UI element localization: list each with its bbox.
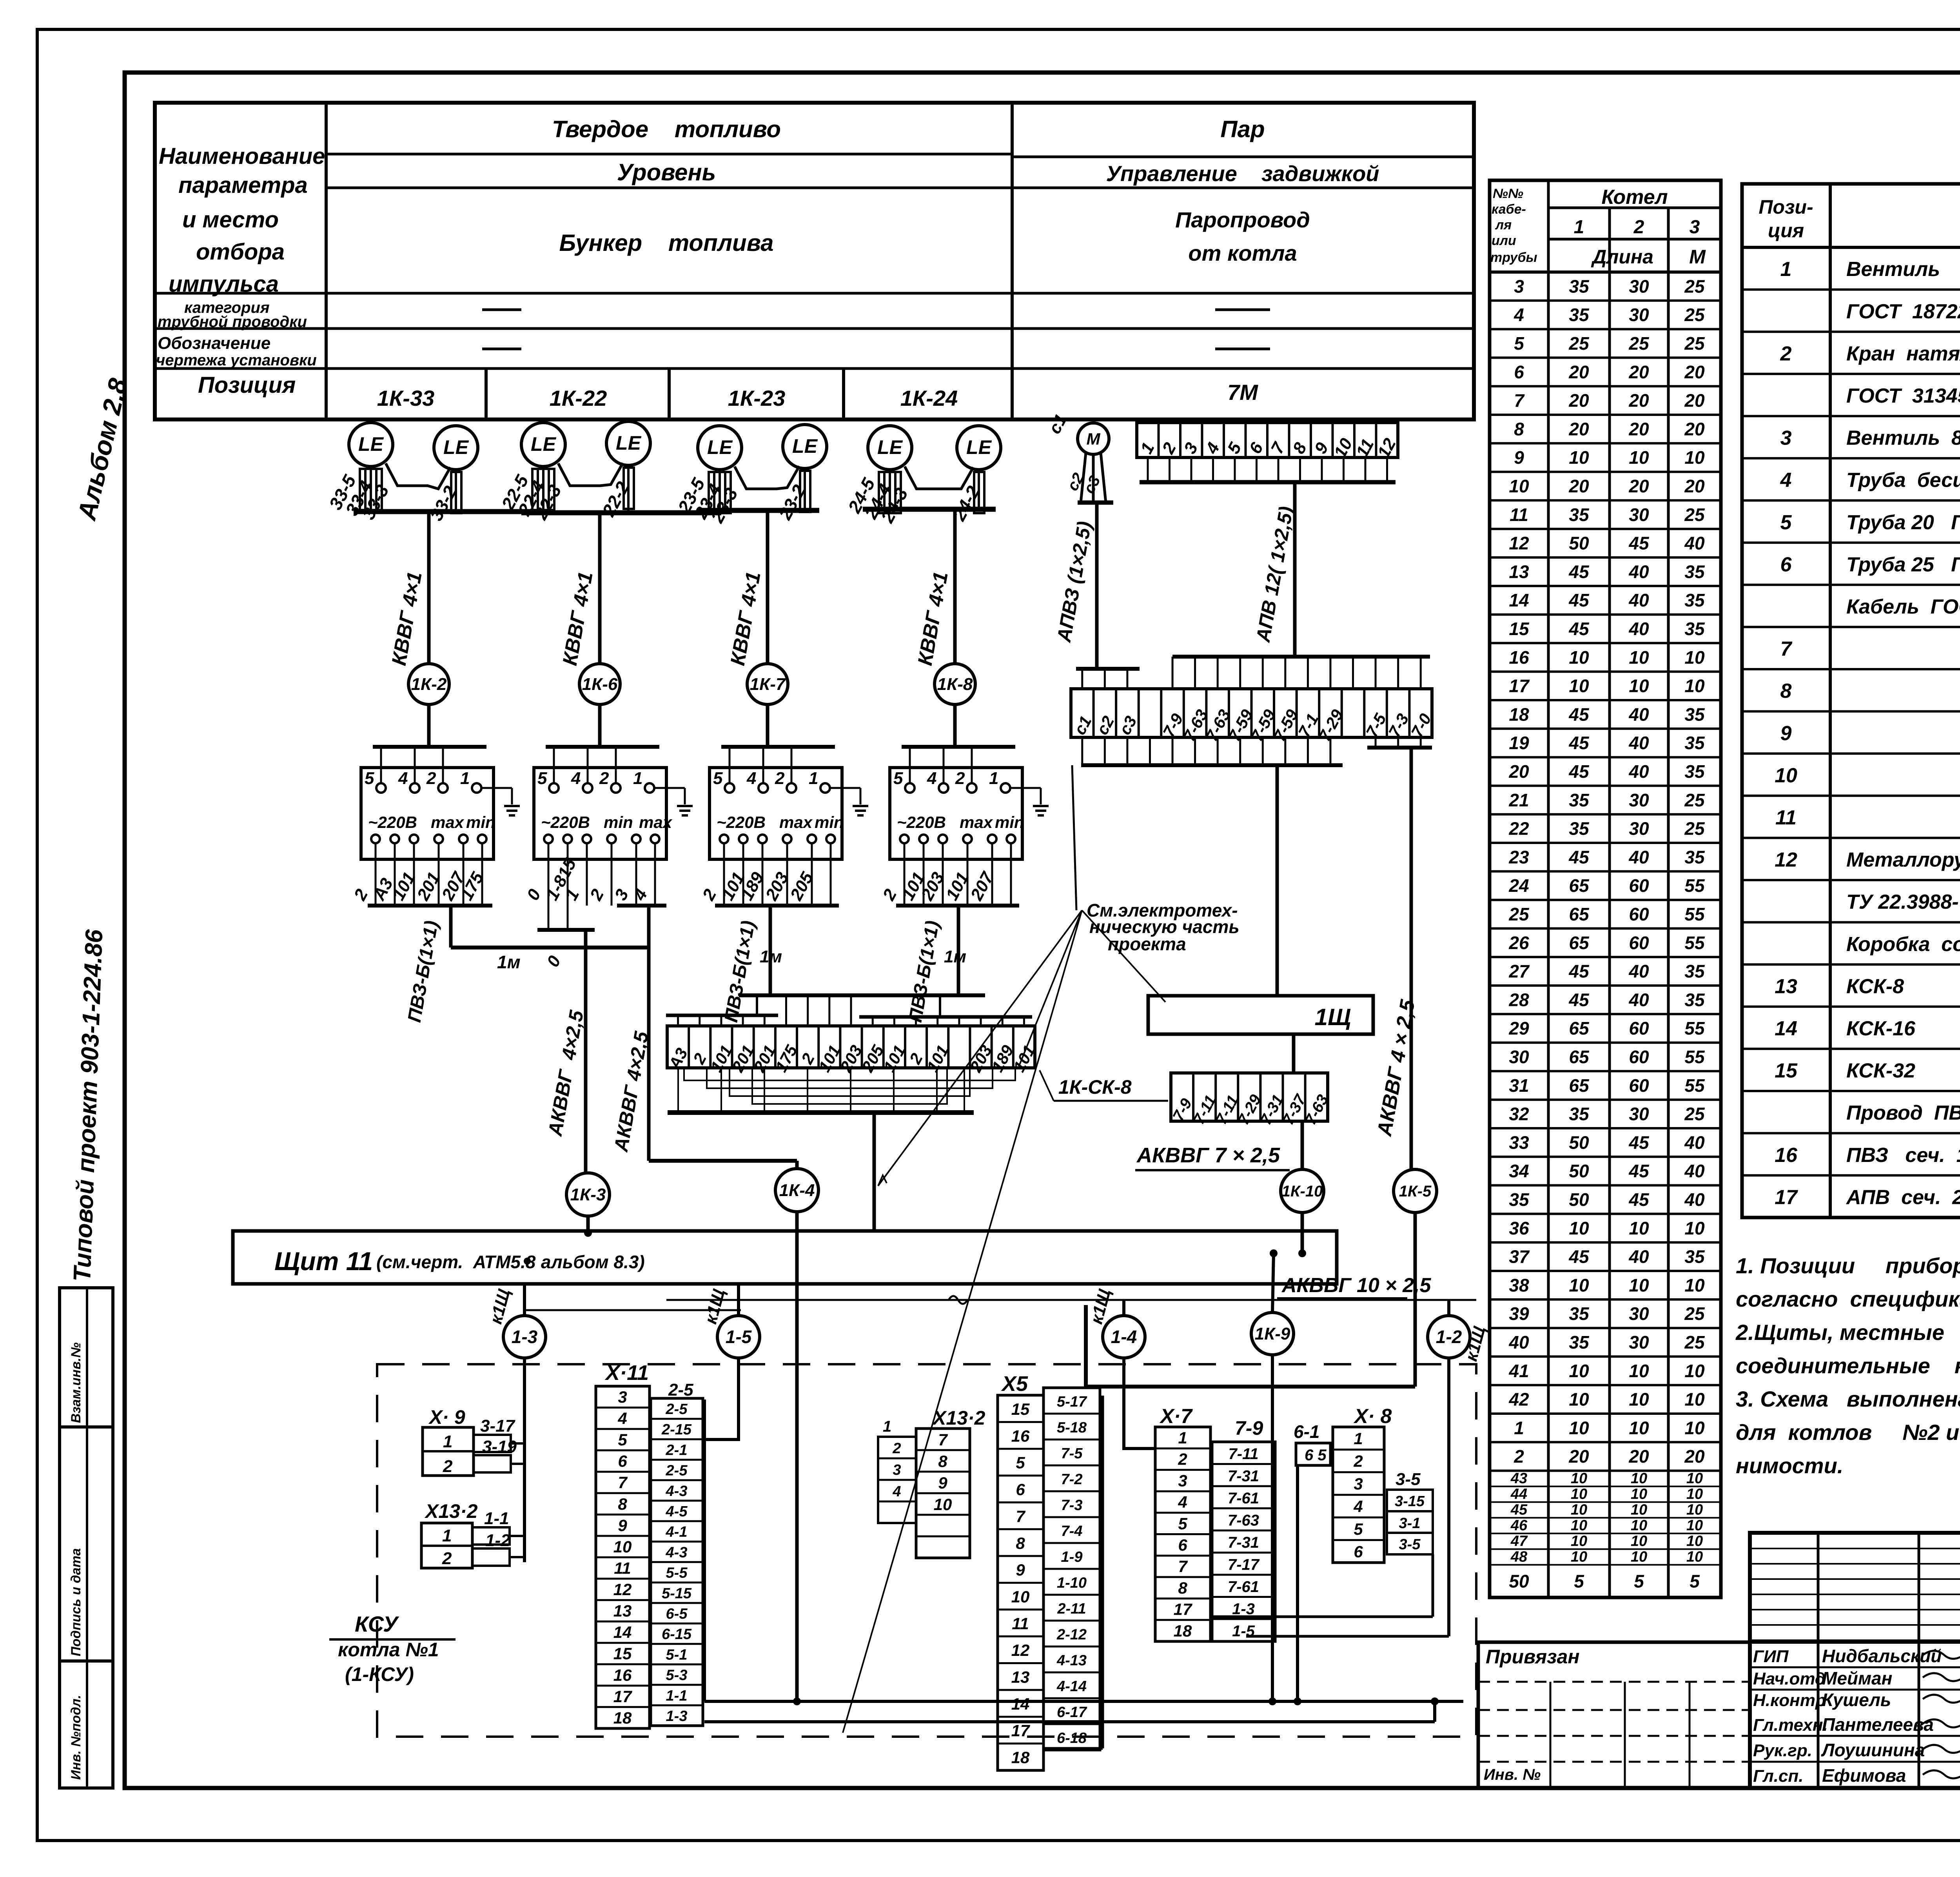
circle 1-4 [1122, 1300, 1125, 1316]
svg-text:55: 55 [1684, 933, 1705, 953]
cable APV3 1x2.5 [1095, 503, 1099, 669]
svg-text:0: 0 [543, 953, 565, 970]
central terminal block 1K-SK-8 [667, 1026, 1035, 1068]
svg-text:Паропровод: Паропровод [1175, 207, 1310, 232]
svg-text:7: 7 [1178, 1557, 1188, 1576]
svg-text:10: 10 [1629, 1361, 1649, 1381]
svg-text:42: 42 [1508, 1389, 1529, 1410]
svg-text:55: 55 [1684, 875, 1705, 896]
bus above box [373, 745, 486, 749]
svg-text:Твердое топливо: Твердое топливо [552, 116, 781, 142]
svg-text:ТУ 22.3988-77: ТУ 22.3988-77 [1846, 891, 1960, 913]
svg-text:47: 47 [1510, 1533, 1528, 1550]
svg-text:4: 4 [571, 769, 581, 788]
svg-text:9: 9 [1514, 447, 1524, 468]
svg-text:40: 40 [1628, 590, 1649, 610]
svg-text:3-5: 3-5 [1396, 1470, 1421, 1489]
svg-text:2: 2 [1158, 439, 1180, 457]
svg-text:40: 40 [1628, 619, 1649, 639]
svg-text:1-2: 1-2 [1436, 1327, 1462, 1347]
svg-text:10: 10 [1684, 447, 1705, 468]
svg-text:9: 9 [1311, 439, 1332, 457]
svg-text:45: 45 [1568, 761, 1590, 782]
svg-text:10: 10 [1569, 1218, 1589, 1238]
svg-text:6-5: 6-5 [666, 1606, 688, 1622]
svg-text:4: 4 [1514, 305, 1524, 325]
svg-text:чертежа установки: чертежа установки [156, 352, 317, 369]
svg-text:8: 8 [1178, 1579, 1187, 1597]
junction box circle 1К-2 [408, 664, 449, 704]
svg-text:АПВЗ (1×2,5): АПВЗ (1×2,5) [1053, 519, 1096, 644]
svg-text:4: 4 [1202, 439, 1223, 457]
level sensor LE 22-right [606, 421, 650, 465]
svg-text:10: 10 [1631, 1533, 1647, 1550]
svg-text:Типовой проект 903-1-224.86: Типовой проект 903-1-224.86 [69, 929, 108, 1282]
svg-text:35: 35 [1684, 847, 1705, 867]
svg-text:40: 40 [1684, 1161, 1705, 1181]
svg-text:4-5: 4-5 [666, 1503, 688, 1520]
svg-text:ПВЗ сеч. 1мм²: ПВЗ сеч. 1мм² [1846, 1144, 1960, 1167]
svg-text:3: 3 [1180, 439, 1202, 457]
cable KVVG 4x1 to 1К-8 [953, 509, 957, 664]
svg-text:1: 1 [1514, 1418, 1524, 1438]
svg-text:45: 45 [1628, 1189, 1650, 1210]
svg-text:8: 8 [1289, 439, 1310, 457]
svg-text:25: 25 [1684, 1303, 1705, 1324]
svg-text:1м: 1м [760, 947, 782, 966]
junction dots bottom wires [793, 1697, 801, 1705]
svg-text:2: 2 [797, 1050, 818, 1067]
svg-text:Инв. №подл.: Инв. №подл. [69, 1695, 83, 1780]
circle 1-5 [737, 1284, 740, 1316]
svg-text:2: 2 [955, 769, 965, 788]
svg-text:35: 35 [1569, 790, 1590, 810]
terminal box 2 [534, 768, 666, 859]
svg-text:5-17: 5-17 [1057, 1394, 1087, 1410]
svg-text:с3: с3 [1115, 713, 1140, 738]
svg-text:КСК-16: КСК-16 [1846, 1017, 1916, 1040]
svg-text:10: 10 [1569, 1275, 1589, 1295]
svg-text:5: 5 [1514, 333, 1524, 354]
svg-text:АКВВГ 10 × 2,5: АКВВГ 10 × 2,5 [1281, 1274, 1431, 1297]
svg-text:6: 6 [1780, 553, 1792, 576]
junction box circle 1К-6 [579, 664, 620, 704]
svg-text:(1-КСУ): (1-КСУ) [345, 1663, 414, 1685]
wire bridge [558, 463, 623, 486]
svg-text:30: 30 [1629, 1332, 1649, 1352]
svg-text:35: 35 [1684, 561, 1705, 582]
svg-text:min: min [604, 813, 633, 831]
svg-text:35: 35 [1569, 505, 1590, 525]
svg-text:3: 3 [1690, 217, 1700, 238]
svg-text:10: 10 [1684, 1275, 1705, 1295]
level sensor LE 24-right [957, 426, 1001, 470]
svg-text:Подпись и дата: Подпись и дата [69, 1548, 83, 1656]
svg-text:1: 1 [562, 886, 583, 904]
svg-text:2: 2 [426, 769, 436, 788]
svg-text:с1: с1 [1045, 411, 1071, 437]
svg-text:с1: с1 [1070, 713, 1095, 738]
svg-text:10: 10 [1629, 447, 1649, 468]
margin stamp boxes [60, 1288, 113, 1788]
svg-text:10: 10 [1686, 1549, 1703, 1565]
svg-text:1: 1 [442, 1526, 452, 1545]
svg-text:2: 2 [586, 886, 608, 904]
svg-text:2: 2 [442, 1549, 452, 1568]
svg-text:6-15: 6-15 [662, 1626, 692, 1643]
terminal bars under LE 22 [532, 469, 543, 510]
svg-text:1К-2: 1К-2 [411, 675, 447, 694]
svg-text:40: 40 [1628, 733, 1649, 753]
svg-text:17: 17 [1011, 1721, 1030, 1740]
svg-text:40: 40 [1628, 704, 1649, 724]
svg-text:LE: LE [792, 435, 818, 457]
svg-text:min: min [466, 813, 495, 831]
level sensor LE 33-left [349, 423, 393, 467]
svg-text:50: 50 [1569, 1132, 1589, 1153]
svg-text:Х·11: Х·11 [604, 1361, 649, 1385]
dashed boundary KSU [377, 1364, 1476, 1737]
svg-text:40: 40 [1628, 989, 1649, 1010]
svg-text:1: 1 [1780, 258, 1792, 281]
svg-text:5: 5 [1574, 1571, 1584, 1592]
junction dot 1K-9 feed [1270, 1249, 1278, 1257]
svg-text:LE: LE [616, 432, 642, 454]
svg-text:Инв. №: Инв. № [1484, 1766, 1541, 1783]
svg-text:2.Щиты, местные электрически: 2.Щиты, местные электрические приборы и [1735, 1320, 1960, 1345]
svg-text:1: 1 [1354, 1429, 1363, 1448]
svg-text:Металлорукав РЗ-Ц-Х-Ф25: Металлорукав РЗ-Ц-Х-Ф25 [1846, 849, 1960, 871]
cable AKVVG 4x2.5 to 1K-4 [647, 906, 651, 1161]
svg-text:~220В: ~220В [717, 813, 766, 831]
svg-text:котла №1: котла №1 [338, 1639, 439, 1661]
svg-text:35: 35 [1684, 1247, 1705, 1267]
svg-text:отбора: отбора [196, 239, 285, 265]
svg-text:max: max [960, 813, 993, 831]
svg-text:6: 6 [1178, 1536, 1187, 1554]
svg-text:нимости.: нимости. [1736, 1453, 1843, 1478]
svg-text:25: 25 [1684, 1332, 1705, 1352]
svg-text:20: 20 [1508, 761, 1529, 782]
svg-text:1: 1 [633, 769, 642, 788]
svg-text:60: 60 [1629, 933, 1649, 953]
svg-text:LE: LE [531, 433, 557, 455]
svg-text:40: 40 [1628, 761, 1649, 782]
svg-text:41: 41 [1508, 1361, 1529, 1381]
svg-text:10: 10 [1684, 1361, 1705, 1381]
svg-text:Кабель ГОСТ 1508-78: Кабель ГОСТ 1508-78 [1846, 595, 1960, 618]
svg-text:(см.черт. АТМ5.8: (см.черт. АТМ5.8 [376, 1252, 536, 1272]
middle terminal strip [1071, 689, 1432, 737]
svg-text:50: 50 [1569, 1189, 1589, 1210]
svg-text:15: 15 [1775, 1060, 1798, 1082]
svg-text:2: 2 [599, 769, 609, 788]
svg-text:7: 7 [1016, 1507, 1025, 1525]
svg-text:55: 55 [1684, 1047, 1705, 1067]
svg-text:10: 10 [1571, 1502, 1587, 1518]
svg-text:6: 6 [1016, 1480, 1025, 1499]
terminal strip 1..12 [1137, 423, 1398, 457]
svg-text:4: 4 [398, 769, 408, 788]
svg-text:10: 10 [1686, 1518, 1703, 1534]
svg-text:1К-СК-8: 1К-СК-8 [1058, 1076, 1132, 1098]
terminal box 4 [890, 768, 1022, 859]
svg-text:4: 4 [630, 886, 651, 904]
svg-text:Наименование: Наименование [159, 143, 325, 169]
svg-text:46: 46 [1510, 1518, 1528, 1534]
svg-text:30: 30 [1629, 790, 1649, 810]
svg-text:с2: с2 [1093, 713, 1118, 738]
svg-text:ГОСТ 18722-73: ГОСТ 18722-73 [1846, 300, 1960, 323]
svg-text:10: 10 [934, 1495, 952, 1514]
svg-text:2: 2 [1514, 1446, 1524, 1467]
svg-text:20: 20 [1628, 419, 1649, 439]
svg-text:40: 40 [1684, 1132, 1705, 1153]
svg-text:50: 50 [1509, 1571, 1529, 1592]
svg-text:17: 17 [1509, 676, 1530, 696]
U-shaped thick wire [1086, 1305, 1415, 1387]
svg-text:1К-24: 1К-24 [900, 386, 958, 410]
svg-text:37: 37 [1509, 1247, 1530, 1267]
svg-text:60: 60 [1629, 1075, 1649, 1096]
svg-text:16: 16 [1775, 1144, 1798, 1167]
break squiggle on wire [949, 1296, 967, 1304]
wire bridge [386, 463, 450, 489]
svg-text:1Щ: 1Щ [1315, 1004, 1351, 1030]
svg-text:45: 45 [1510, 1502, 1528, 1518]
svg-text:кабе-: кабе- [1492, 202, 1526, 217]
svg-text:КВВГ 4×1: КВВГ 4×1 [726, 570, 765, 667]
pointer lines [1019, 910, 1082, 1066]
svg-text:10: 10 [1629, 676, 1649, 696]
junction box circle 1К-8 [935, 664, 975, 704]
strip 7-x [1171, 1073, 1328, 1121]
terminal box 1 [361, 768, 494, 859]
svg-text:10: 10 [1569, 676, 1589, 696]
svg-text:1К-10: 1К-10 [1282, 1183, 1323, 1200]
wire bridge [735, 466, 799, 489]
ground symbol [830, 787, 860, 789]
buses above central block [666, 1014, 778, 1017]
bottom long wire D [704, 1720, 1435, 1723]
svg-text:Пар: Пар [1220, 116, 1265, 142]
circle 1-2 [1447, 1300, 1450, 1316]
svg-text:10: 10 [1629, 1418, 1649, 1438]
svg-text:10: 10 [1684, 647, 1705, 668]
svg-text:Уровень: Уровень [617, 159, 716, 185]
svg-text:6: 6 [1354, 1543, 1363, 1561]
wire PV3 from box3 [769, 906, 772, 995]
svg-text:4: 4 [1353, 1497, 1363, 1516]
svg-text:1. Позиции приборов и а: 1. Позиции приборов и аппаратуры указаны [1736, 1253, 1960, 1278]
svg-text:Пантелеева: Пантелеева [1822, 1714, 1934, 1735]
svg-text:2-5: 2-5 [666, 1401, 688, 1418]
svg-text:Кран натяжной 14М1-16: Кран натяжной 14М1-16 [1846, 342, 1960, 365]
svg-text:ля: ля [1495, 218, 1512, 232]
svg-text:10: 10 [1629, 1218, 1649, 1238]
svg-text:3: 3 [1780, 427, 1792, 450]
terminal box 3 [710, 768, 842, 859]
svg-text:25: 25 [1684, 1104, 1705, 1124]
svg-text:10: 10 [1569, 1418, 1589, 1438]
svg-text:7-31: 7-31 [1228, 1534, 1259, 1551]
svg-text:1К-23: 1К-23 [728, 386, 786, 410]
svg-text:Рук.гр.: Рук.гр. [1753, 1741, 1812, 1760]
svg-text:7-61: 7-61 [1228, 1578, 1259, 1596]
svg-text:25: 25 [1684, 790, 1705, 810]
svg-text:7-5: 7-5 [1061, 1445, 1083, 1462]
svg-text:1: 1 [460, 769, 470, 788]
svg-text:3-1: 3-1 [1399, 1515, 1421, 1532]
svg-text:1: 1 [809, 769, 818, 788]
svg-text:35: 35 [1684, 761, 1705, 782]
svg-text:5-5: 5-5 [666, 1565, 688, 1581]
svg-text:9: 9 [938, 1474, 947, 1492]
svg-text:3: 3 [618, 1388, 627, 1406]
svg-text:36: 36 [1509, 1218, 1529, 1238]
svg-text:6-1: 6-1 [1294, 1421, 1319, 1442]
bus of group 24 [863, 507, 996, 512]
svg-text:2: 2 [443, 1457, 453, 1476]
svg-text:min: min [815, 813, 844, 831]
bus above box [902, 745, 1015, 749]
svg-text:КВВГ 4×1: КВВГ 4×1 [388, 570, 426, 667]
svg-text:10: 10 [1684, 1418, 1705, 1438]
svg-text:17: 17 [613, 1687, 632, 1706]
cable length table [1490, 180, 1721, 1597]
bus under central block [668, 1110, 974, 1115]
svg-text:25: 25 [1684, 505, 1705, 525]
svg-text:15: 15 [1509, 619, 1530, 639]
bus under box1 [368, 904, 492, 908]
svg-text:1К-7: 1К-7 [750, 675, 786, 694]
svg-text:50: 50 [1569, 1161, 1589, 1181]
svg-text:АКВВГ 7 × 2,5: АКВВГ 7 × 2,5 [1136, 1144, 1280, 1167]
bus of group 33 [354, 509, 553, 514]
svg-text:АПВ сеч. 2,5мм²: АПВ сеч. 2,5мм² [1846, 1186, 1960, 1209]
svg-text:6-18: 6-18 [1057, 1730, 1087, 1746]
svg-text:16: 16 [613, 1666, 632, 1684]
bus under box4 [896, 904, 1019, 908]
ground symbol [481, 787, 512, 789]
wire PV3 from box4 [957, 906, 960, 995]
svg-text:Х· 9: Х· 9 [428, 1406, 465, 1428]
wire bridge [905, 467, 973, 489]
svg-text:5-15: 5-15 [662, 1585, 692, 1602]
svg-text:1К-3: 1К-3 [570, 1185, 606, 1204]
svg-text:40: 40 [1628, 1247, 1649, 1267]
svg-text:ГОСТ 31345-78: ГОСТ 31345-78 [1846, 385, 1960, 407]
svg-text:35: 35 [1569, 276, 1590, 296]
svg-text:3-15: 3-15 [1395, 1493, 1425, 1510]
svg-text:10: 10 [1686, 1470, 1703, 1487]
wire to pointer origin [1072, 765, 1076, 910]
Shchit 11 box [233, 1231, 1337, 1284]
svg-text:11: 11 [614, 1559, 631, 1577]
svg-text:20: 20 [1628, 1446, 1649, 1467]
svg-text:max: max [779, 813, 813, 831]
svg-text:10: 10 [1775, 764, 1797, 787]
svg-text:Нидбальский: Нидбальский [1822, 1646, 1942, 1666]
wire PV3 from box1 [449, 906, 453, 948]
svg-text:35: 35 [1684, 733, 1705, 753]
svg-text:5: 5 [1690, 1571, 1700, 1592]
terminal bars under LE 24 [879, 472, 890, 513]
svg-text:25: 25 [1684, 276, 1705, 296]
svg-text:0: 0 [523, 886, 545, 904]
svg-text:1-10: 1-10 [1057, 1575, 1087, 1591]
svg-text:10: 10 [1569, 447, 1589, 468]
svg-text:3. Схема выполнена для к: 3. Схема выполнена для котла №1 и примен… [1736, 1387, 1960, 1411]
svg-text:1: 1 [1178, 1429, 1187, 1447]
svg-text:Труба бесшовная 14×2 ГОСТ 873: Труба бесшовная 14×2 ГОСТ 8734-75 [1846, 469, 1960, 492]
svg-text:13: 13 [613, 1602, 632, 1620]
svg-text:ПВЗ-Б(1×1): ПВЗ-Б(1×1) [721, 919, 759, 1024]
svg-text:30: 30 [1629, 276, 1649, 296]
svg-text:4: 4 [892, 1483, 901, 1500]
svg-text:2: 2 [350, 886, 372, 904]
svg-text:14: 14 [1775, 1017, 1797, 1040]
svg-text:1: 1 [883, 1418, 891, 1435]
svg-text:2: 2 [892, 1440, 901, 1457]
svg-text:10: 10 [1631, 1470, 1647, 1487]
svg-text:Мейман: Мейман [1822, 1668, 1892, 1688]
svg-text:5: 5 [1354, 1520, 1363, 1538]
svg-text:7: 7 [1780, 638, 1793, 661]
svg-text:1К-33: 1К-33 [377, 386, 435, 410]
svg-text:3-5: 3-5 [1399, 1536, 1421, 1553]
bottom wire A [1212, 1616, 1433, 1618]
svg-text:10: 10 [1631, 1502, 1647, 1518]
cable AKVVG 7x2.5 [1301, 1121, 1304, 1169]
svg-text:10: 10 [1629, 647, 1649, 668]
svg-text:3: 3 [1354, 1474, 1363, 1493]
svg-text:7-9: 7-9 [1235, 1417, 1263, 1439]
svg-text:44: 44 [1510, 1486, 1527, 1503]
svg-text:альбом 8.3): альбом 8.3) [541, 1252, 645, 1272]
svg-text:60: 60 [1629, 904, 1649, 924]
svg-text:Труба 20 ГОСТ 3262-75: Труба 20 ГОСТ 3262-75 [1846, 511, 1960, 534]
svg-text:13: 13 [1011, 1668, 1030, 1686]
svg-text:10: 10 [1509, 476, 1529, 496]
cable AKVVG 4x2.5 right [1410, 748, 1413, 1169]
svg-text:1К-22: 1К-22 [550, 386, 607, 410]
svg-text:22: 22 [1508, 819, 1529, 839]
svg-text:20: 20 [1568, 1446, 1589, 1467]
svg-text:20: 20 [1568, 476, 1589, 496]
junction circle 1K-4 [775, 1169, 818, 1212]
svg-text:10: 10 [1571, 1549, 1587, 1565]
svg-text:5: 5 [618, 1430, 627, 1449]
svg-text:4: 4 [1780, 469, 1792, 492]
svg-text:для котлов №2 и №3 согл: для котлов №2 и №3 согласно таблицы прим… [1736, 1420, 1960, 1445]
svg-text:ПВЗ-Б(1×1): ПВЗ-Б(1×1) [404, 919, 443, 1024]
svg-text:35: 35 [1684, 704, 1705, 724]
svg-text:35: 35 [1569, 819, 1590, 839]
motor M [1078, 423, 1109, 454]
specification table [1742, 184, 1960, 1218]
svg-text:7-3: 7-3 [1061, 1497, 1083, 1514]
svg-text:35: 35 [1569, 1104, 1590, 1124]
svg-text:10: 10 [1631, 1486, 1647, 1503]
svg-text:5: 5 [893, 769, 903, 788]
junction circle 1K-10 [1281, 1169, 1324, 1213]
level sensor LE 23-right [783, 425, 827, 468]
svg-text:10: 10 [1684, 1218, 1705, 1238]
svg-text:24: 24 [1508, 875, 1529, 896]
svg-text:1: 1 [1137, 439, 1158, 457]
svg-text:2: 2 [775, 769, 785, 788]
